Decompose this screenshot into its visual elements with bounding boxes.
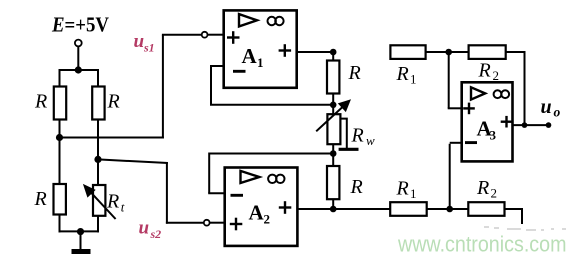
svg-text:2: 2 <box>493 68 500 83</box>
svg-text:R: R <box>107 91 120 113</box>
svg-text:2: 2 <box>264 212 271 227</box>
svg-text:R: R <box>106 191 119 213</box>
svg-text:t: t <box>121 200 125 215</box>
svg-text:u: u <box>541 96 552 118</box>
svg-text:u: u <box>134 31 145 52</box>
svg-text:s2: s2 <box>150 227 162 241</box>
svg-text:o: o <box>554 105 561 120</box>
svg-text:R: R <box>350 176 363 198</box>
svg-text:u: u <box>139 218 150 239</box>
svg-text:R: R <box>478 60 491 82</box>
svg-text:1: 1 <box>410 186 417 201</box>
svg-text:R: R <box>351 125 364 147</box>
svg-text:www.cntronics.com: www.cntronics.com <box>397 232 566 257</box>
svg-text:R: R <box>34 91 47 113</box>
svg-text:R: R <box>396 63 409 85</box>
svg-text:R: R <box>476 177 489 199</box>
svg-text:A: A <box>242 44 258 68</box>
svg-text:w: w <box>366 133 375 148</box>
svg-text:1: 1 <box>257 55 264 70</box>
svg-text:R: R <box>34 188 47 210</box>
svg-text:2: 2 <box>491 186 498 201</box>
svg-text:R: R <box>348 62 361 84</box>
svg-text:R: R <box>396 178 409 200</box>
svg-text:A: A <box>249 201 265 225</box>
svg-text:E=+5V: E=+5V <box>51 13 109 37</box>
svg-text:1: 1 <box>410 72 417 87</box>
svg-text:s1: s1 <box>143 41 155 55</box>
svg-text:3: 3 <box>490 128 497 143</box>
